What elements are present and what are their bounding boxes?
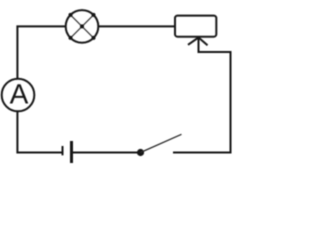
wire: battery to switch pivot (73, 152, 141, 154)
wire: left vertical + top horizontal run to lamp (top-left corner) (17, 26, 66, 79)
ammeter A1 (circle with letter A) (2, 79, 35, 112)
wire: lamp to rheostat (98, 25, 175, 27)
rheostat R1 (rectangle body) (175, 16, 216, 37)
wire: bottom-left corner to battery (17, 112, 62, 153)
switch S1 (open knife switch: pivot dot + lever) (137, 134, 182, 156)
battery B1 (cell: short plate + long plate) (63, 141, 72, 163)
rheostat wiper arrow (188, 38, 208, 54)
wire: wiper lead down, right, and down the right side (199, 52, 231, 153)
wire: bottom-right corner to switch contact (173, 152, 232, 154)
lamp L1 (circle with X) (66, 10, 99, 43)
